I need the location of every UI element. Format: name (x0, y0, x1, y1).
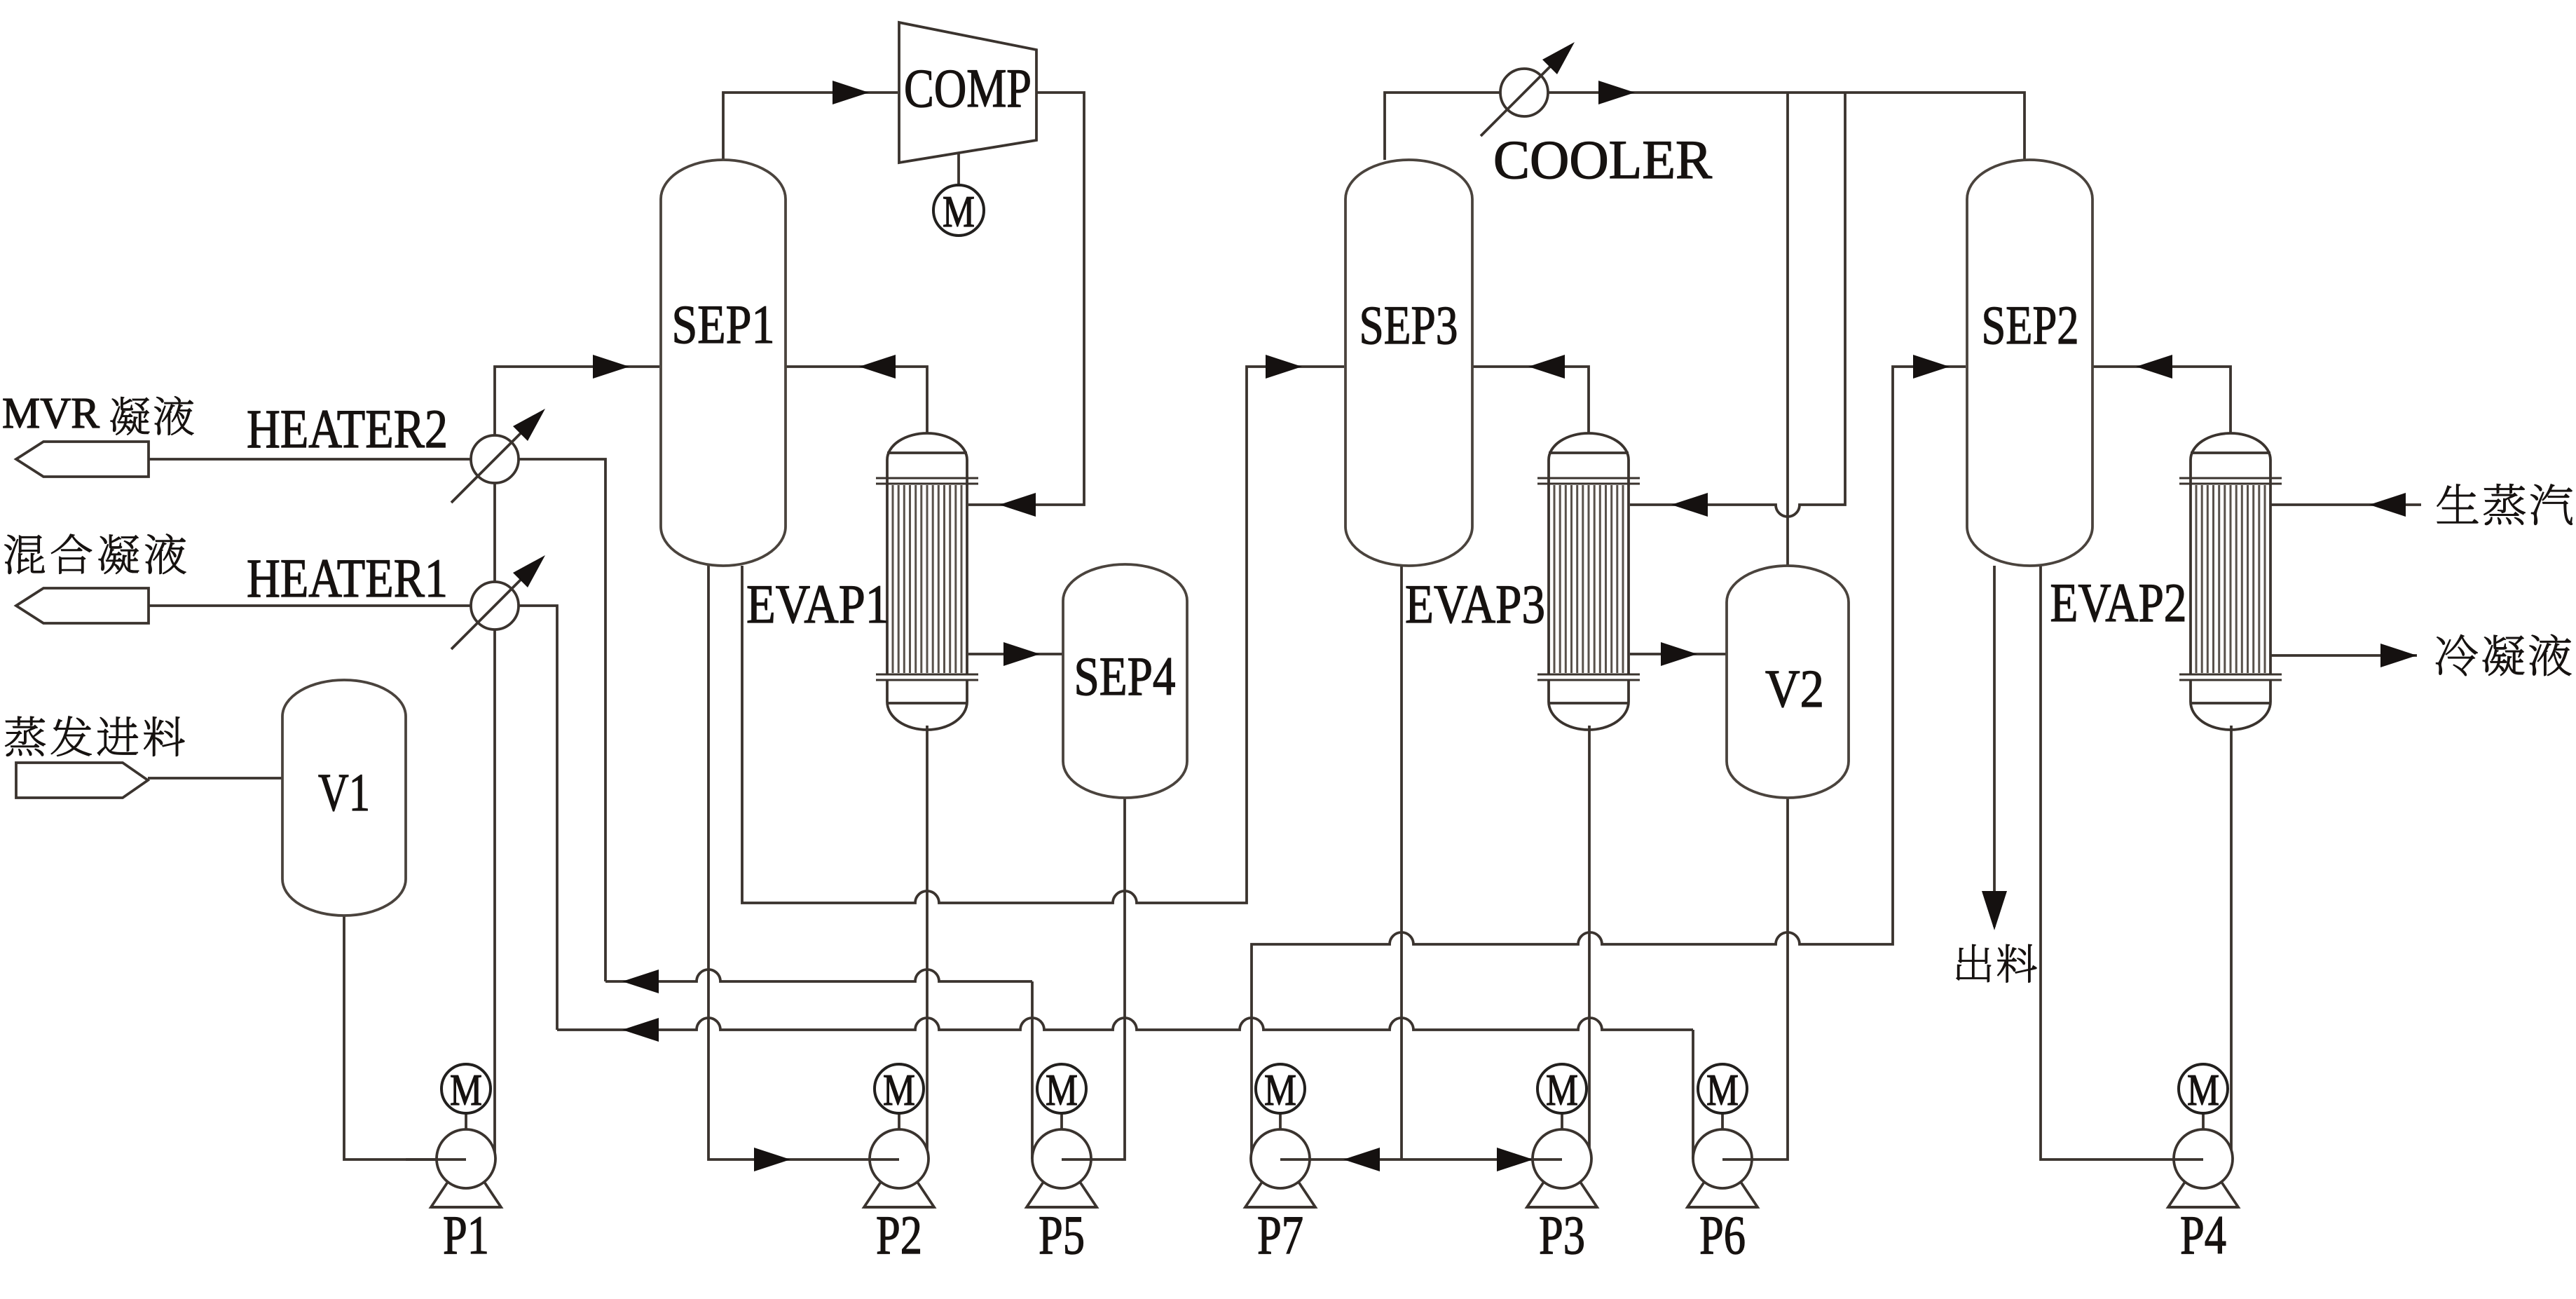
wire: EVAP1 vapor to SEP1 right inlet (786, 367, 927, 433)
wire: EVAP2 vapor to SEP2 right inlet (2092, 367, 2231, 433)
wire: SEP4 bottom to P5 suction (1062, 798, 1125, 1159)
arrow into SEP3 right inlet (1528, 355, 1565, 379)
vessel SEP3 (1345, 160, 1472, 566)
svg-text:HEATER2: HEATER2 (247, 398, 448, 459)
svg-text:M: M (1546, 1065, 1578, 1115)
svg-text:COMP: COMP (904, 57, 1032, 118)
svg-text:HEATER1: HEATER1 (247, 548, 448, 608)
wire: SEP1 bottom big loop to SEP3 inlet (742, 367, 1344, 903)
arrow into SEP2 right inlet (2136, 355, 2172, 379)
svg-text:P2: P2 (876, 1204, 922, 1265)
heater HEATER1 (471, 582, 519, 630)
svg-text:M: M (1264, 1065, 1296, 1115)
junction arrow into COMP (833, 81, 869, 104)
vessel V2 (1727, 566, 1849, 798)
arrow into EVAP1 steam inlet (999, 493, 1036, 517)
wire: P2 discharge up to EVAP1 bottom (926, 726, 929, 1159)
arrow into P2 suction (754, 1148, 790, 1171)
svg-text:P3: P3 (1539, 1204, 1585, 1265)
wire: SEP1 top vapor to COMP (723, 93, 898, 160)
arrow into P7 suction (1343, 1148, 1380, 1171)
wire: MVR condensate line through HEATER2, down to header A (149, 459, 605, 981)
wire: SEP2 bottom product line (1993, 566, 1996, 927)
svg-text:EVAP3: EVAP3 (1405, 573, 1545, 634)
arrow after COOLER (1598, 81, 1635, 104)
heat exchanger EVAP1 (887, 433, 967, 484)
wire: EVAP1 to SEP4 (968, 653, 1063, 655)
pump P4 (2168, 1169, 2238, 1207)
label 冷凝液 (2436, 634, 2477, 676)
label 生蒸汽 (2437, 484, 2479, 523)
label 出料 (1957, 944, 1991, 982)
COMP motor link (957, 153, 960, 185)
svg-text:MVR: MVR (2, 390, 100, 437)
svg-text:P7: P7 (1257, 1204, 1303, 1265)
arrow into EVAP3 steam inlet (1671, 493, 1708, 517)
wire: raw steam into EVAP2 (2270, 503, 2421, 506)
cooler COOLER (1500, 69, 1548, 116)
wire: V1 bottom to P1 suction (344, 916, 466, 1159)
motor M of P5 (1037, 1064, 1086, 1113)
arrow into SEP1 right inlet (859, 355, 896, 379)
arrow into SEP4 (1003, 642, 1040, 666)
motor M of P1 (441, 1064, 491, 1113)
arrow on header A pointing left (622, 970, 659, 993)
wire: P3 suction stub (1533, 1158, 1562, 1161)
wire: P5 discharge riser (1031, 981, 1034, 1159)
wire: SEP1 bottom to P2 suction (708, 566, 899, 1159)
wire: P6 suction stub (1722, 1158, 1752, 1161)
wire: P7 discharge via header B to SEP2 left inlet (1252, 367, 1966, 1159)
svg-text:EVAP1: EVAP1 (746, 573, 889, 634)
wire: EVAP2 condensate out (2270, 654, 2417, 657)
motor M of P4 (2179, 1064, 2228, 1113)
wire: feed flag to V1 (148, 777, 282, 780)
svg-text:SEP1: SEP1 (672, 294, 775, 355)
motor M of P6 (1698, 1064, 1747, 1113)
arrow into SEP2 left inlet (1913, 355, 1950, 379)
svg-text:P1: P1 (443, 1204, 489, 1265)
arrow into V2 (1661, 642, 1697, 666)
svg-text:SEP2: SEP2 (1982, 294, 2079, 355)
wire: feed line from P1 up through heaters into SEP1 (495, 367, 659, 1159)
wire: SEP3 top through COOLER to SEP2 top (1385, 93, 2025, 160)
wire: P2 suction stub (871, 1158, 899, 1161)
label 混合凝液 (4, 535, 44, 573)
vessel V1 (282, 680, 406, 916)
vessel SEP2 (1967, 160, 2092, 566)
arrow on header C pointing left (622, 1018, 659, 1042)
wire: mixed condensate line through HEATER1, down to header C (149, 606, 557, 1030)
motor M of P3 (1537, 1064, 1587, 1113)
wire: V2 bottom to P6 suction (1722, 798, 1788, 1159)
arrow into P3 suction (1497, 1148, 1533, 1171)
pump P2 (864, 1169, 934, 1207)
svg-text:SEP4: SEP4 (1074, 646, 1176, 707)
svg-text:EVAP2: EVAP2 (2050, 572, 2187, 633)
wire: P7 suction stub (1280, 1158, 1310, 1161)
wire: P3 discharge up to EVAP3 bottom (1588, 726, 1591, 1159)
wire: EVAP3 condensate to V2 (1630, 653, 1727, 655)
svg-text:V2: V2 (1765, 660, 1824, 719)
heat exchanger EVAP2 (2191, 433, 2270, 484)
svg-text:V1: V1 (318, 763, 370, 822)
pump P5 (1027, 1169, 1097, 1207)
wire: P5 suction stub (1062, 1158, 1091, 1161)
svg-text:SEP3: SEP3 (1359, 294, 1458, 355)
wire: header A from HEATER2 drop to P5 discharge (605, 970, 1032, 981)
wire: P6 discharge riser (1692, 1030, 1694, 1159)
svg-text:M: M (2187, 1065, 2219, 1115)
wire: P7 - P3 suction manifold (1280, 1158, 1562, 1161)
arrow condensate out (2380, 644, 2417, 667)
wire: SEP2 vapor down to EVAP3 shell inlet (1630, 93, 1845, 517)
motor M of P7 (1256, 1064, 1305, 1113)
motor M of COMP (933, 185, 984, 236)
vessel SEP4 (1063, 564, 1187, 798)
svg-text:P5: P5 (1039, 1204, 1085, 1265)
arrow raw steam into EVAP2 (2369, 493, 2406, 517)
wire: P4 suction stub (2174, 1158, 2203, 1161)
wire: cooled vapor down to V2 (1786, 93, 1789, 566)
wire: COMP discharge down to EVAP1 shell inlet (968, 93, 1084, 505)
compressor COMP (899, 22, 1036, 163)
pump P1 (431, 1169, 501, 1207)
stream flag: MVR condensate outlet (16, 442, 149, 477)
stream flag: mixed condensate outlet (16, 588, 149, 623)
wire: P1 suction stub (406, 1158, 466, 1161)
svg-text:COOLER: COOLER (1493, 129, 1712, 190)
arrow into SEP1 left inlet (593, 355, 629, 379)
heater HEATER2 (471, 435, 519, 483)
heat exchanger EVAP3 (1549, 433, 1629, 484)
svg-text:M: M (943, 186, 975, 236)
wire: P4 discharge up to EVAP2 bottom (2230, 726, 2233, 1159)
wire: SEP2 bottom to P4 suction (2041, 566, 2203, 1159)
svg-text:M: M (883, 1065, 915, 1115)
wire: EVAP3 vapor to SEP3 right inlet (1472, 367, 1589, 433)
motor M of P2 (875, 1064, 924, 1113)
product discharge arrow (1982, 891, 2007, 930)
svg-text:P4: P4 (2180, 1204, 2226, 1265)
svg-text:M: M (450, 1065, 482, 1115)
svg-text:M: M (1046, 1065, 1078, 1115)
label 蒸发进料 (5, 716, 45, 756)
pump P7 (1245, 1169, 1315, 1207)
svg-text:M: M (1706, 1065, 1739, 1115)
wire: header C from HEATER1 drop to P6 discharge (557, 1018, 1693, 1030)
pump P3 (1527, 1169, 1597, 1207)
wire: SEP3 bottom down to P7/P3 junction (1400, 566, 1403, 1159)
vessel SEP1 (661, 160, 786, 566)
stream flag: evaporator feed inlet (16, 763, 148, 798)
pump P6 (1687, 1169, 1758, 1207)
svg-text:P6: P6 (1699, 1204, 1746, 1265)
arrow into SEP3 left inlet (1266, 355, 1302, 379)
